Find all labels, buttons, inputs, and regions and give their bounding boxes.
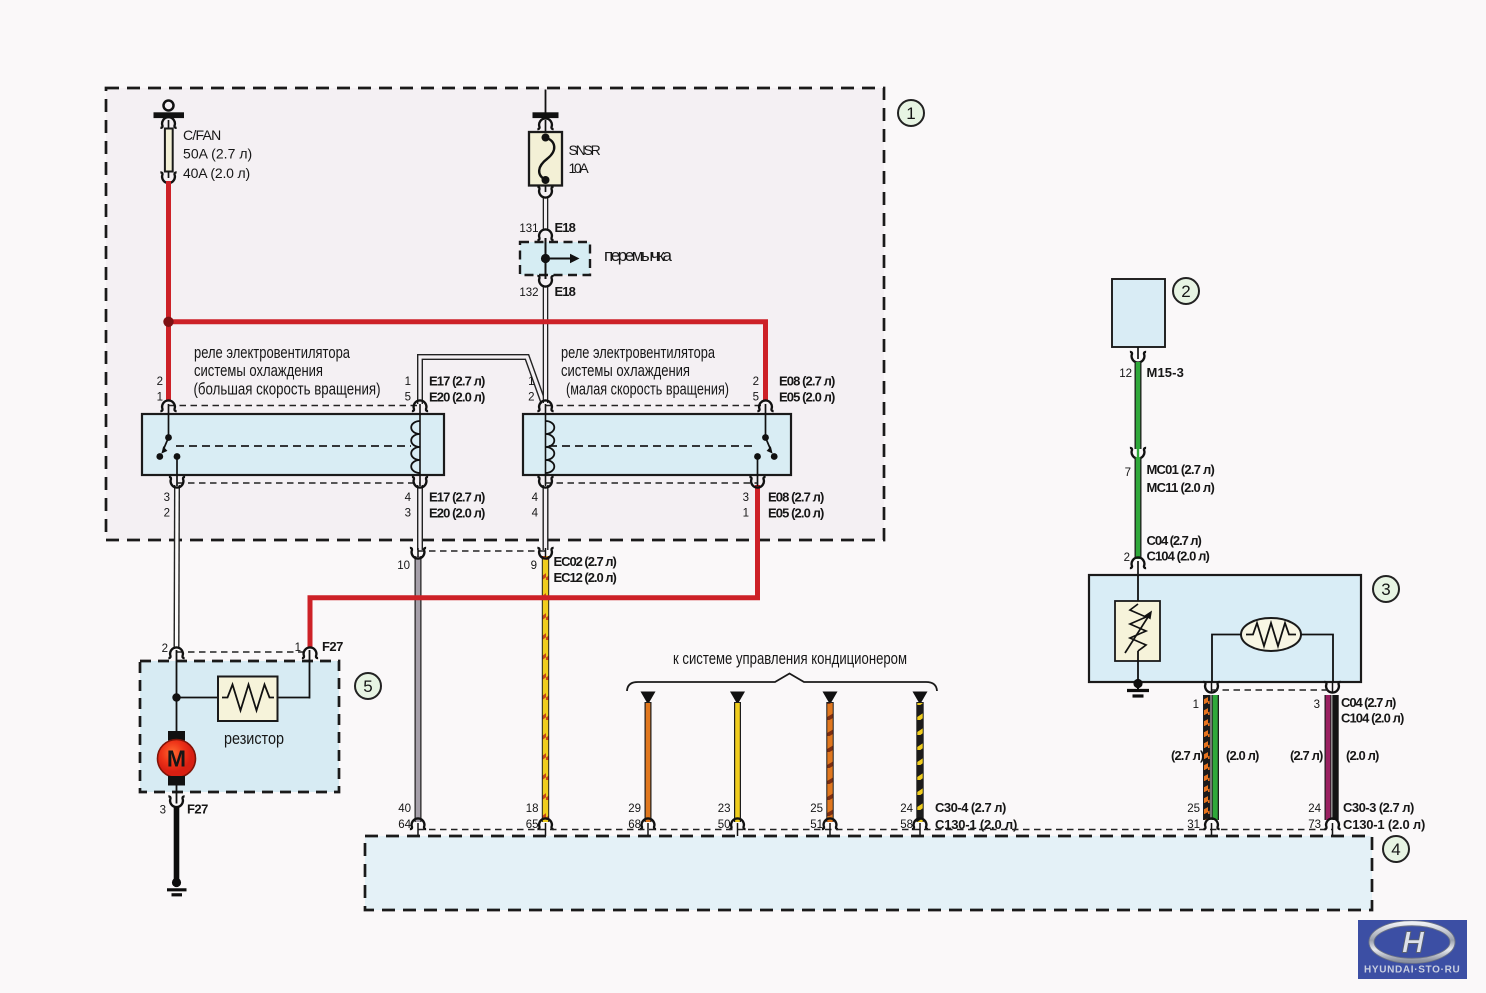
connector 12 M15-3	[1119, 347, 1183, 380]
svg-text:E20 (2.0 л): E20 (2.0 л)	[429, 506, 485, 521]
svg-text:131: 131	[519, 223, 538, 235]
svg-text:5: 5	[363, 677, 372, 696]
svg-text:SNSR: SNSR	[569, 142, 601, 158]
svg-text:3: 3	[164, 492, 170, 504]
wire connector 132 E18 to relay2 pin 1/2 (double line)	[543, 285, 549, 403]
block 4 box (engine control module)	[365, 836, 1372, 910]
svg-text:C104 (2.0 л): C104 (2.0 л)	[1147, 549, 1210, 564]
svg-text:18: 18	[526, 803, 539, 815]
svg-text:3: 3	[1314, 699, 1320, 711]
svg-text:C/FAN: C/FAN	[183, 127, 221, 143]
svg-text:1: 1	[743, 508, 749, 520]
svg-text:3: 3	[160, 805, 166, 817]
motor M (fan motor)	[158, 731, 196, 804]
connectors 25/31 and 24/73 C30-3/C130-1	[1187, 800, 1425, 832]
svg-text:1: 1	[528, 376, 534, 388]
thermistor inside block 3	[1115, 575, 1160, 682]
relay 2 switch contacts	[754, 404, 778, 486]
svg-text:40A (2.0 л): 40A (2.0 л)	[183, 165, 250, 181]
connector 2 C04/C104	[1124, 533, 1210, 576]
connector 132 E18	[519, 276, 575, 299]
svg-text:50A (2.7 л): 50A (2.7 л)	[183, 146, 252, 162]
svg-text:40: 40	[398, 803, 411, 815]
svg-text:E18: E18	[555, 220, 576, 235]
svg-text:M: M	[167, 746, 186, 772]
fan motor resistor ellipse inside block 3	[1212, 618, 1333, 682]
wire SNSR fuse to connector 131 E18 (double line)	[543, 197, 549, 229]
wire relay1 coil to relay2 coil (double line loop)	[420, 357, 544, 404]
relay 1 connector E17/E20 top	[157, 374, 485, 412]
connector pins 40/64 (gray wire into block 4)	[398, 803, 426, 831]
svg-text:24: 24	[900, 803, 913, 815]
svg-text:C30-3 (2.7 л): C30-3 (2.7 л)	[1343, 800, 1414, 815]
svg-text:1: 1	[295, 642, 301, 654]
svg-text:132: 132	[519, 287, 538, 299]
relay 2 connector E08/E05 bottom	[532, 477, 824, 521]
svg-text:EC12 (2.0 л): EC12 (2.0 л)	[554, 570, 617, 585]
svg-text:(2.0 л): (2.0 л)	[1226, 748, 1259, 763]
ground wire from motor	[174, 807, 180, 880]
ground symbol block 3	[1127, 679, 1149, 696]
svg-text:перемычка: перемычка	[604, 246, 673, 265]
block 5 box (fan motor + resistor)	[140, 661, 339, 792]
svg-text:E08 (2.7 л): E08 (2.7 л)	[768, 490, 824, 505]
connector pins 18/65 (yellow wire into block 4)	[526, 803, 554, 831]
red power wire from fuse C/FAN down to relay1	[166, 181, 171, 402]
svg-text:7: 7	[1125, 467, 1131, 479]
svg-text:5: 5	[405, 392, 411, 404]
svg-text:4: 4	[532, 492, 539, 504]
relay 2 connector E08/E05 top	[528, 374, 835, 412]
wire pair purple + black down to block 4	[1290, 695, 1379, 820]
svg-text:25: 25	[810, 803, 823, 815]
fuse SNSR 10A (fusible link)	[529, 90, 601, 198]
wire to A/C system (orange), pins 29/68	[628, 692, 656, 832]
svg-text:31: 31	[1187, 819, 1200, 831]
svg-text:10: 10	[397, 560, 410, 572]
svg-text:1: 1	[906, 104, 915, 123]
relay 1 switch contacts	[156, 404, 180, 486]
annotation: to air conditioner control system	[627, 649, 937, 691]
svg-text:MC01 (2.7 л): MC01 (2.7 л)	[1147, 462, 1215, 477]
relay 1 coil	[411, 404, 420, 486]
svg-text:12: 12	[1119, 368, 1132, 380]
svg-text:(2.7 л): (2.7 л)	[1171, 748, 1204, 763]
svg-text:3: 3	[1381, 580, 1390, 599]
svg-text:2: 2	[157, 376, 163, 388]
svg-text:64: 64	[398, 819, 411, 831]
block 3 output connectors 1 and 3	[1193, 682, 1404, 726]
svg-text:2: 2	[528, 392, 534, 404]
svg-text:2: 2	[162, 643, 168, 655]
svg-text:HYUNDAI·STO·RU: HYUNDAI·STO·RU	[1364, 965, 1460, 976]
svg-text:C04 (2.7 л): C04 (2.7 л)	[1147, 533, 1202, 548]
svg-text:3: 3	[743, 492, 749, 504]
ground symbol under motor	[167, 878, 187, 895]
svg-text:1: 1	[405, 376, 411, 388]
relay 2: cooling fan relay (low speed)	[523, 414, 791, 475]
svg-text:4: 4	[405, 492, 412, 504]
svg-text:C104 (2.0 л): C104 (2.0 л)	[1341, 711, 1404, 726]
wire green: connector 7 to connector 2	[1135, 457, 1142, 559]
svg-text:3: 3	[405, 508, 411, 520]
connector 7 MC01/MC11	[1125, 448, 1215, 495]
svg-text:10A: 10A	[569, 160, 590, 176]
svg-text:к системе управления кондицион: к системе управления кондиционером	[673, 649, 907, 668]
svg-text:E05 (2.0 л): E05 (2.0 л)	[779, 390, 835, 405]
block 3 box (fan thermo assembly)	[1089, 575, 1361, 682]
svg-text:2: 2	[753, 376, 759, 388]
svg-text:29: 29	[628, 803, 641, 815]
wire gray: connector 10 to block 4 pin 40/64	[415, 556, 422, 822]
jumper box (перемычка)	[520, 238, 673, 279]
block 2 box (A/C switch)	[1112, 279, 1165, 347]
block 1 dashed harness box	[106, 88, 884, 540]
svg-text:C130-1 (2.0 л): C130-1 (2.0 л)	[1343, 817, 1425, 832]
svg-text:5: 5	[753, 392, 759, 404]
wire green: block 2 to connector 7	[1135, 362, 1142, 449]
block 5 connector pins 2 and 1 F27	[162, 639, 343, 658]
resistor (резистор)	[218, 677, 284, 749]
connector 10 / 9 EC02-EC12	[397, 548, 616, 585]
svg-text:F27: F27	[322, 639, 343, 654]
red power wire branch to relay2 pin 2/5	[163, 317, 765, 402]
svg-text:реле электровентилятора: реле электровентилятора	[561, 343, 715, 362]
svg-text:F27: F27	[187, 802, 208, 817]
svg-text:резистор: резистор	[224, 729, 284, 748]
wire to A/C system (yellow), pins 23/50	[718, 692, 746, 832]
wire relay1 pin 4/3 to connector 10 (double line)	[417, 485, 423, 550]
svg-text:E05 (2.0 л): E05 (2.0 л)	[768, 506, 824, 521]
svg-text:2: 2	[164, 508, 170, 520]
hyundai-sto.ru watermark logo	[1358, 920, 1467, 979]
node label 1	[898, 100, 924, 126]
wire pair black/orange + green down to block 4	[1171, 695, 1259, 820]
node label 4	[1383, 836, 1409, 862]
svg-text:реле электровентилятора: реле электровентилятора	[194, 343, 350, 362]
relay 2 annotation (Russian)	[561, 343, 729, 399]
svg-text:системы охлаждения: системы охлаждения	[194, 361, 323, 380]
svg-text:(большая скорость вращения): (большая скорость вращения)	[194, 380, 381, 399]
svg-text:MC11 (2.0 л): MC11 (2.0 л)	[1147, 480, 1215, 495]
svg-text:(2.0 л): (2.0 л)	[1346, 748, 1379, 763]
relay 1 annotation (Russian)	[194, 343, 381, 399]
svg-text:E17 (2.7 л): E17 (2.7 л)	[429, 490, 485, 505]
svg-text:системы охлаждения: системы охлаждения	[561, 361, 690, 380]
wire yellow/red stripe: connector 9 to block 4 pin 18/65	[543, 556, 548, 822]
svg-text:(2.7 л): (2.7 л)	[1290, 748, 1323, 763]
connector 131 E18	[519, 220, 575, 240]
svg-text:25: 25	[1187, 803, 1200, 815]
svg-text:1: 1	[157, 392, 163, 404]
wire to A/C system (orange/black stripe), pins 25/51	[810, 692, 838, 832]
svg-text:E08 (2.7 л): E08 (2.7 л)	[779, 374, 835, 389]
svg-text:2: 2	[1124, 552, 1130, 564]
svg-text:E18: E18	[555, 284, 576, 299]
svg-text:C30-4 (2.7 л): C30-4 (2.7 л)	[935, 800, 1006, 815]
node label 2	[1173, 278, 1199, 304]
wire to A/C system (black/yellow stripe), pins 24/58, connector C30-4/C130-1	[900, 692, 1017, 833]
wire relay1 switch to block5 pin 2 (double line)	[174, 485, 181, 649]
svg-text:73: 73	[1308, 819, 1321, 831]
block 5 internal wiring	[172, 650, 309, 732]
svg-text:1: 1	[1193, 699, 1199, 711]
wire relay2 pin 4/4 to connector 9 (double line)	[543, 485, 549, 550]
svg-text:C04 (2.7 л): C04 (2.7 л)	[1341, 695, 1396, 710]
svg-text:E20 (2.0 л): E20 (2.0 л)	[429, 390, 485, 405]
node label 5	[355, 673, 381, 699]
red wire relay2 pin 3/1 to block5 pin 1 F27	[310, 485, 758, 649]
svg-text:EC02 (2.7 л): EC02 (2.7 л)	[554, 554, 617, 569]
svg-text:H: H	[1402, 925, 1425, 960]
svg-text:M15-3: M15-3	[1147, 365, 1184, 380]
svg-text:23: 23	[718, 803, 731, 815]
svg-text:4: 4	[532, 508, 539, 520]
relay 1 connector E17/E20 bottom	[164, 477, 485, 521]
fuse C/FAN 50A/40A	[154, 101, 253, 184]
svg-text:4: 4	[1391, 840, 1400, 859]
relay 2 coil	[546, 404, 555, 486]
relay 1: cooling fan relay (high speed)	[142, 414, 444, 475]
svg-text:(малая скорость вращения): (малая скорость вращения)	[566, 380, 729, 399]
svg-text:E17 (2.7 л): E17 (2.7 л)	[429, 374, 485, 389]
svg-text:24: 24	[1308, 803, 1321, 815]
svg-text:2: 2	[1181, 282, 1190, 301]
connector 3 F27	[160, 796, 208, 816]
node label 3	[1373, 576, 1399, 602]
block 4 connector dashed line	[418, 823, 1333, 837]
svg-text:9: 9	[531, 560, 537, 572]
